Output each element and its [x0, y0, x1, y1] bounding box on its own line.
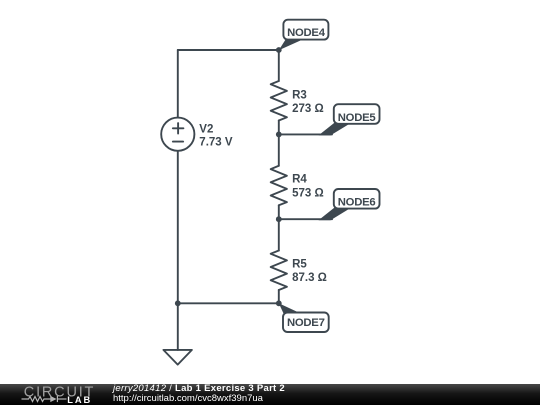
footer text	[113, 384, 285, 404]
voltage source V2 circle	[161, 118, 194, 151]
resistor R5	[271, 251, 287, 291]
wire bottom horizontal	[178, 302, 279, 304]
svg-text:R3: R3	[292, 89, 307, 101]
svg-text:87.3 Ω: 87.3 Ω	[292, 272, 327, 284]
svg-text:273 Ω: 273 Ω	[292, 103, 324, 115]
wire right segment R3 to R4	[278, 121, 280, 166]
label R3 value	[292, 89, 324, 115]
svg-text:NODE4: NODE4	[287, 27, 326, 39]
node NODE7 flag	[279, 303, 329, 332]
node NODE4 flag	[279, 20, 329, 51]
junction node7	[276, 300, 282, 306]
svg-text:573 Ω: 573 Ω	[292, 187, 324, 199]
svg-text:R4: R4	[292, 174, 307, 186]
node NODE6 flag	[319, 189, 380, 220]
wire right segment R4 to R5	[278, 205, 280, 250]
svg-text:V2: V2	[199, 123, 213, 135]
label R4 value	[292, 174, 324, 200]
wire stub node6	[279, 218, 332, 220]
svg-text:NODE5: NODE5	[338, 112, 376, 124]
resistor R4	[271, 166, 287, 206]
svg-text:R5: R5	[292, 259, 307, 271]
svg-text:LAB: LAB	[67, 395, 92, 405]
wire left upper (top wire to V2 plus terminal)	[177, 50, 179, 118]
wire right segment R5 to bottom	[278, 290, 280, 303]
resistor R3	[271, 81, 287, 121]
CircuitLab logo	[0, 384, 100, 405]
footer bar	[0, 384, 540, 405]
wire left lower (V2 minus terminal to bottom wire)	[177, 151, 179, 303]
ground	[163, 303, 192, 364]
wire right segment NODE4 to R3	[278, 50, 280, 81]
junction node4	[276, 47, 282, 53]
junction node6	[276, 216, 282, 222]
label R5 value	[292, 259, 327, 285]
svg-text:7.73 V: 7.73 V	[199, 136, 233, 148]
label V2 value	[199, 123, 233, 148]
wire top horizontal	[178, 49, 279, 51]
svg-text:NODE7: NODE7	[287, 317, 325, 329]
wire stub node5	[279, 133, 332, 135]
node NODE5 flag	[319, 104, 380, 135]
junction node5	[276, 132, 282, 138]
junction ground	[175, 300, 181, 306]
svg-text:NODE6: NODE6	[338, 197, 376, 209]
